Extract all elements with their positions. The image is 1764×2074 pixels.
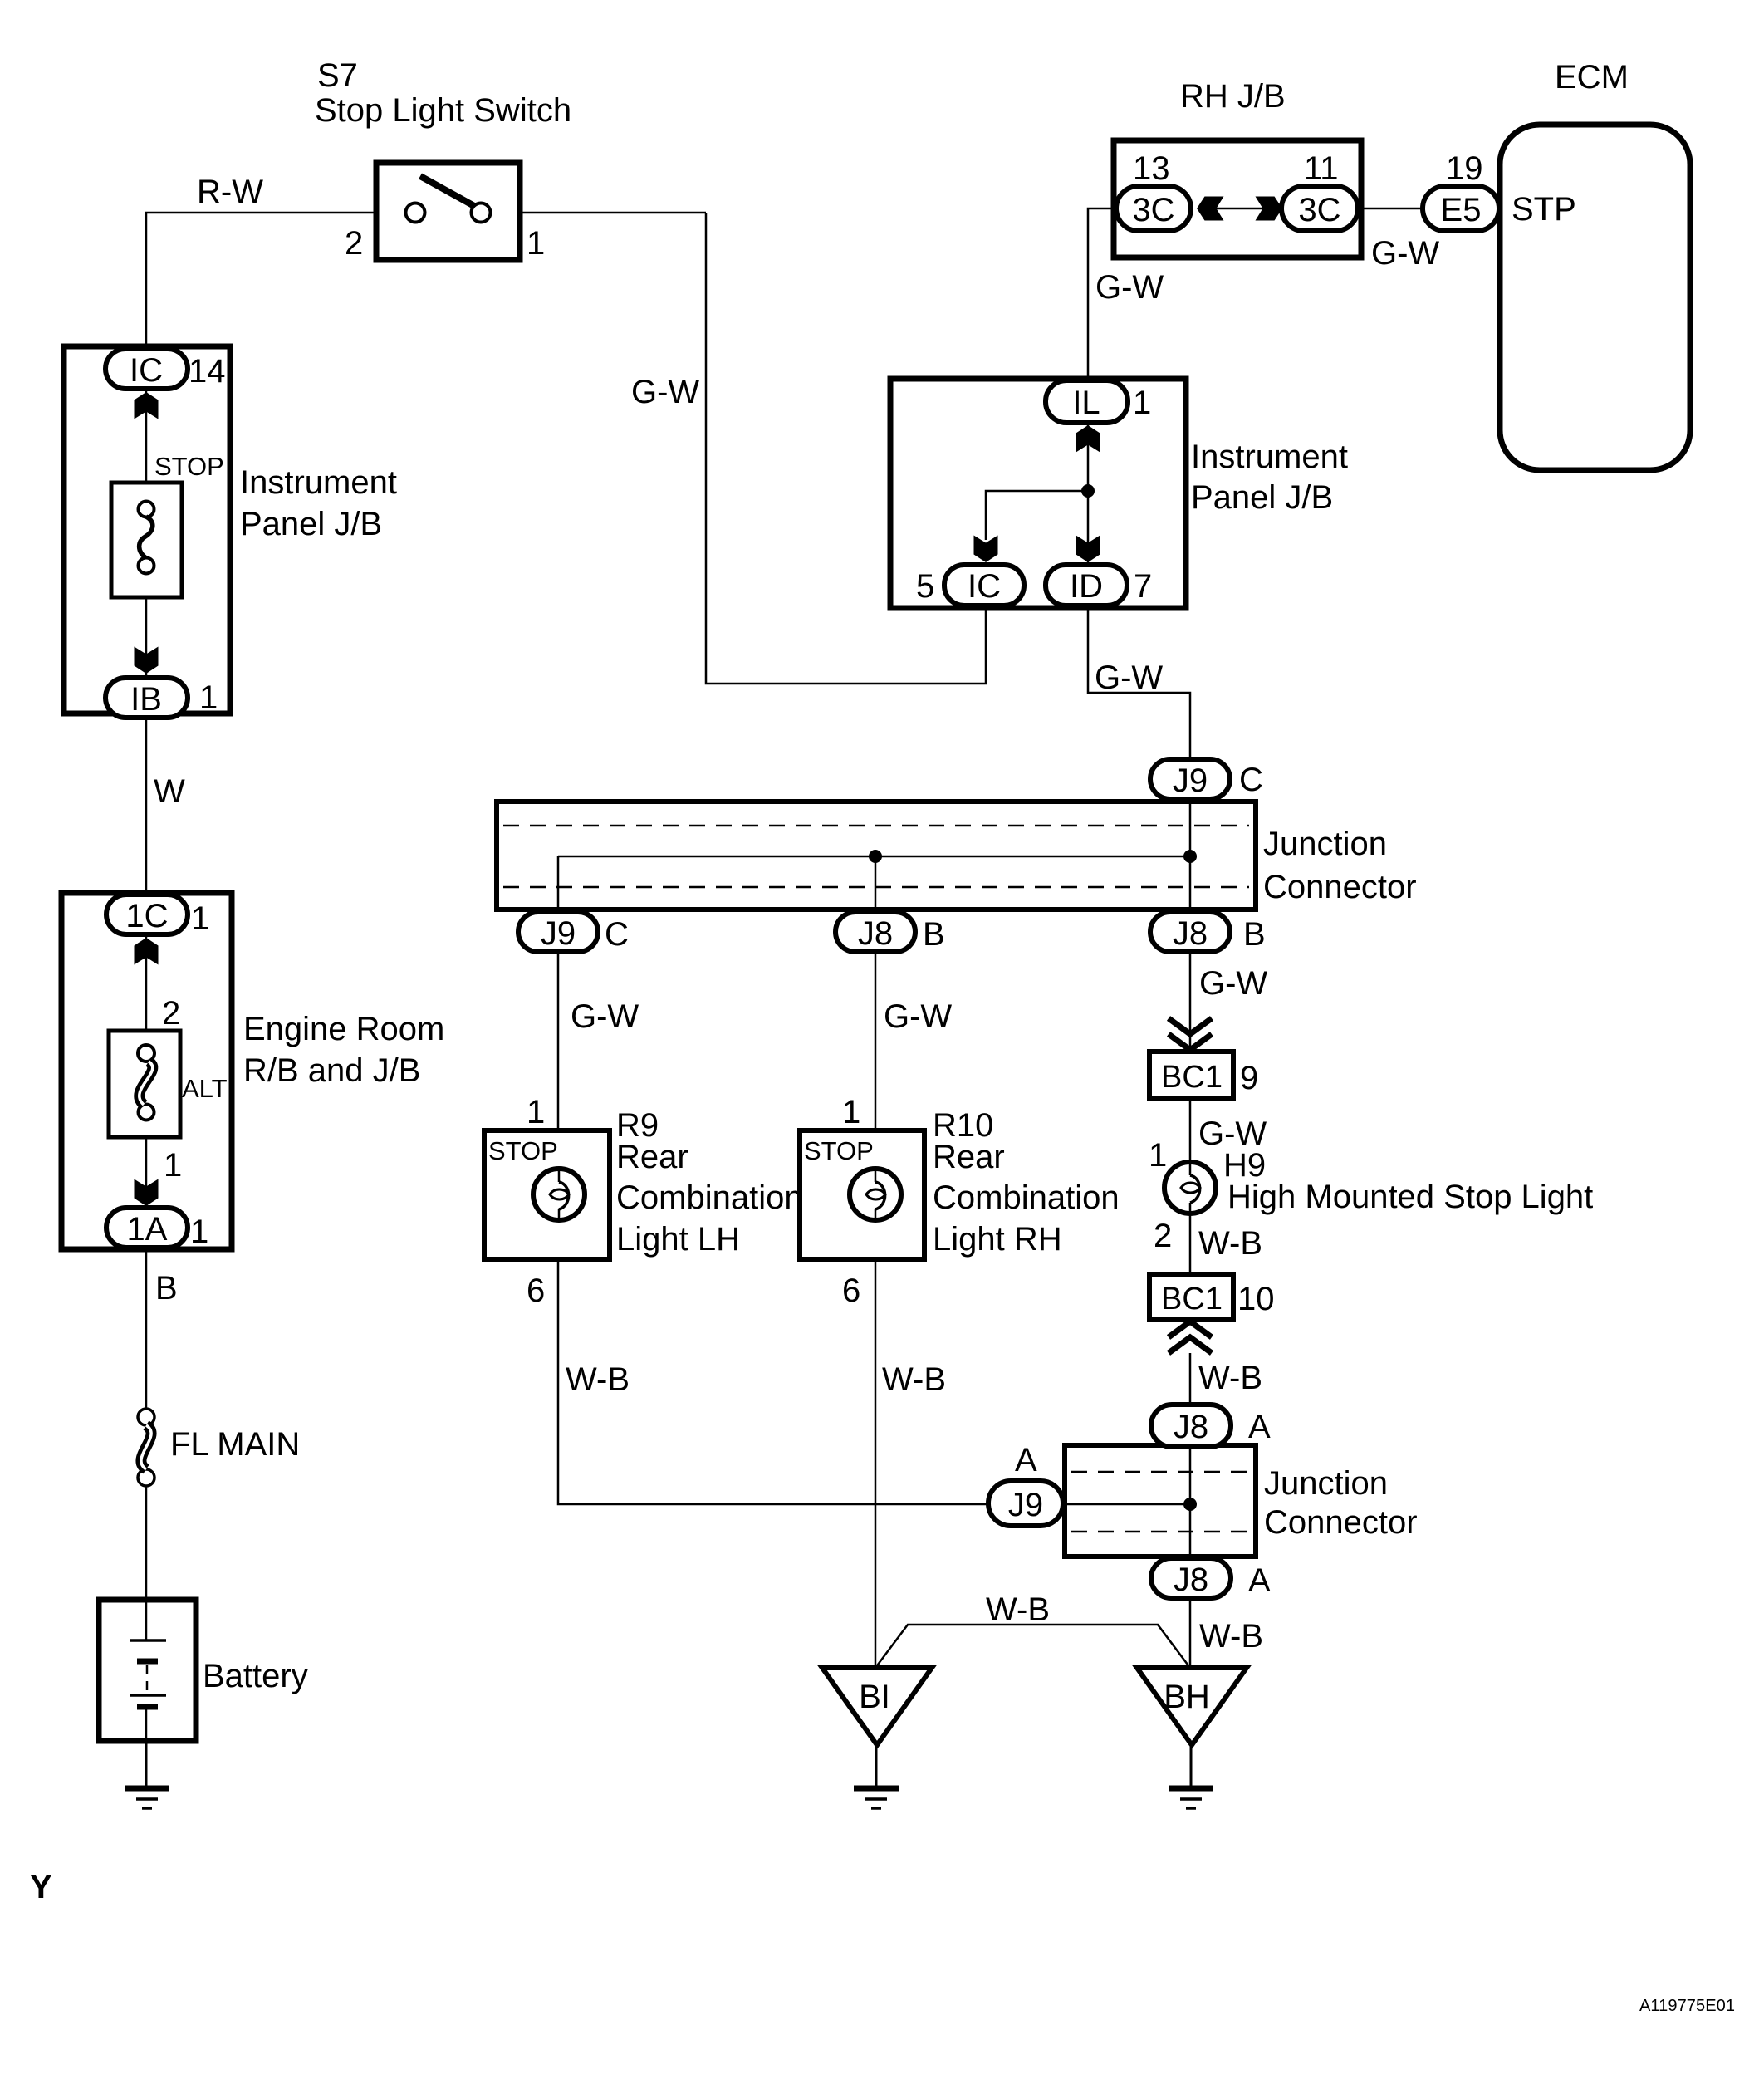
svg-text:G-W: G-W <box>1199 965 1267 1002</box>
svg-text:W-B: W-B <box>1199 1618 1263 1655</box>
bulb R10 <box>850 1169 901 1220</box>
svg-text:BI: BI <box>859 1679 890 1715</box>
wire B: 1A to FL MAIN <box>145 1249 148 1409</box>
wire W-B bridge BI to BH <box>875 1625 1190 1668</box>
svg-text:Connector: Connector <box>1264 1504 1418 1541</box>
svg-text:J9: J9 <box>1173 762 1208 799</box>
junction dot (bus middle) <box>869 850 882 863</box>
connector J9 (pin C) oval top <box>1150 759 1230 799</box>
wire W-B: J8 A bottom to BH <box>1189 1598 1192 1669</box>
ECM box <box>1500 125 1690 470</box>
fusible link FL MAIN <box>138 1409 154 1486</box>
wire J8 A top through box to J8 A bottom <box>1189 1445 1192 1560</box>
connector J8 (pin B) oval bottom-middle <box>835 912 915 952</box>
svg-text:1A: 1A <box>127 1211 168 1248</box>
wire BH to ground <box>1190 1745 1193 1787</box>
Instrument Panel J/B box (middle) <box>890 379 1186 608</box>
connector arrow right (male) <box>1256 197 1283 221</box>
connector J8 (pin B) oval bottom-right <box>1150 912 1230 952</box>
svg-text:C: C <box>605 916 629 953</box>
dashed line lower 1 <box>1071 1471 1249 1473</box>
svg-text:BH: BH <box>1164 1679 1210 1715</box>
connector IL (pin 1) oval <box>1046 380 1128 423</box>
fuse ALT box <box>109 1031 180 1137</box>
svg-text:A119775E01: A119775E01 <box>1639 1997 1735 2015</box>
svg-text:5: 5 <box>916 568 934 605</box>
fusible link ALT symbol <box>138 1045 154 1120</box>
wire G-W: J9 C to R9, and W-B: R9 to J9 A <box>558 952 990 1504</box>
connector ID (pin 7) oval <box>1046 565 1127 606</box>
svg-text:7: 7 <box>1134 568 1152 605</box>
svg-text:J8: J8 <box>1173 915 1208 952</box>
svg-text:Engine Room: Engine Room <box>243 1011 444 1047</box>
svg-text:Junction: Junction <box>1263 826 1387 862</box>
svg-text:Connector: Connector <box>1263 869 1417 905</box>
svg-text:W-B: W-B <box>1198 1360 1262 1396</box>
svg-text:W-B: W-B <box>986 1591 1050 1628</box>
connector arrow left (male) <box>1197 197 1224 221</box>
junction dot (middle J/B) <box>1081 484 1095 498</box>
wire W: IB to 1C <box>145 718 148 895</box>
svg-text:S7: S7 <box>317 57 358 94</box>
wire H9 to BC1 10 <box>1189 1211 1192 1274</box>
svg-text:C: C <box>1239 762 1263 798</box>
arrow down into ID <box>1076 536 1100 563</box>
svg-text:1: 1 <box>1133 385 1151 421</box>
bus wire inside junction connector <box>558 856 1190 858</box>
connector J8 (pin A) oval bottom <box>1151 1558 1231 1598</box>
svg-text:G-W: G-W <box>1095 659 1163 696</box>
svg-text:J8: J8 <box>1174 1562 1208 1598</box>
svg-text:IC: IC <box>968 568 1001 605</box>
svg-text:A: A <box>1015 1442 1037 1478</box>
arrow up into IC <box>135 392 159 419</box>
svg-text:STP: STP <box>1512 191 1576 228</box>
svg-text:W: W <box>154 773 185 810</box>
switch contact left <box>406 203 425 223</box>
Engine Room R/B and J/B box <box>61 893 232 1249</box>
connector J9 (pin A) oval left <box>988 1481 1063 1526</box>
svg-text:E5: E5 <box>1441 192 1482 228</box>
svg-text:Panel J/B: Panel J/B <box>1191 479 1333 516</box>
connector BC1 (pin 10) box <box>1149 1274 1233 1320</box>
svg-text:13: 13 <box>1133 150 1170 187</box>
connector 1C (pin 1) oval <box>106 895 188 934</box>
connector IC (pin 5) oval <box>944 565 1024 606</box>
Instrument Panel J/B box (left) <box>64 346 230 713</box>
svg-text:FL MAIN: FL MAIN <box>170 1426 300 1463</box>
svg-text:9: 9 <box>1240 1060 1258 1096</box>
wire switch pin 1 to G-W corner <box>491 212 706 214</box>
svg-text:IL: IL <box>1072 385 1100 421</box>
wire W-B: BC1 to J8 A <box>1189 1353 1192 1407</box>
wire bus to J8 B middle <box>875 856 877 914</box>
junction connector box (lower) <box>1065 1445 1256 1557</box>
svg-text:11: 11 <box>1304 150 1339 187</box>
svg-text:10: 10 <box>1237 1281 1275 1317</box>
svg-text:Combination: Combination <box>933 1179 1120 1216</box>
svg-text:Junction: Junction <box>1264 1465 1388 1502</box>
svg-text:1: 1 <box>527 1094 545 1130</box>
arrow up into IL <box>1076 425 1100 453</box>
svg-text:3C: 3C <box>1298 192 1340 228</box>
wire dot to ID <box>1087 491 1090 568</box>
wire G-W: 3C left to IL <box>1088 208 1116 381</box>
wire G-W: J8 B to BC1 <box>1189 952 1192 1052</box>
svg-text:Light RH: Light RH <box>933 1221 1062 1258</box>
svg-text:3C: 3C <box>1132 192 1174 228</box>
svg-text:Battery: Battery <box>203 1658 308 1694</box>
ground triangle BI <box>822 1668 932 1745</box>
svg-text:Rear: Rear <box>616 1139 688 1175</box>
svg-text:R/B and J/B: R/B and J/B <box>243 1052 420 1089</box>
wire BI to ground <box>875 1745 878 1787</box>
svg-text:R-W: R-W <box>197 174 263 210</box>
svg-text:STOP: STOP <box>804 1136 874 1165</box>
svg-text:Rear: Rear <box>933 1139 1005 1175</box>
battery symbol <box>130 1600 166 1741</box>
svg-text:A: A <box>1248 1562 1271 1599</box>
ground (BI) <box>854 1788 899 1808</box>
wire G-W: J8 B to R10 to BI <box>875 952 877 1669</box>
RH J/B box <box>1114 140 1361 257</box>
dashed line upper 2 <box>503 886 1249 889</box>
svg-text:1: 1 <box>842 1094 860 1130</box>
wire J9 A into dot <box>1065 1503 1190 1506</box>
connector IC (pin 14) oval <box>105 349 188 389</box>
svg-text:19: 19 <box>1446 150 1483 187</box>
dashed line upper 1 <box>503 825 1249 827</box>
svg-text:W-B: W-B <box>882 1361 946 1398</box>
svg-text:Stop Light Switch: Stop Light Switch <box>315 92 571 129</box>
svg-text:G-W: G-W <box>571 998 639 1035</box>
connector 3C (pin 13) oval <box>1116 186 1191 231</box>
svg-text:6: 6 <box>527 1272 545 1309</box>
bulb H9 high mounted stop light <box>1164 1162 1216 1214</box>
wire battery to ground <box>145 1741 148 1787</box>
ground triangle BH <box>1137 1668 1247 1745</box>
svg-text:G-W: G-W <box>884 998 952 1035</box>
svg-text:14: 14 <box>189 353 226 390</box>
wire G-W: ID to J9 C <box>1088 607 1190 761</box>
wire R-W: IC14 to switch pin 2 <box>146 213 406 347</box>
connector J9 (pin C) oval bottom-left <box>518 912 598 952</box>
junction connector box (upper) <box>497 802 1256 910</box>
svg-text:1: 1 <box>1149 1137 1167 1174</box>
svg-text:High Mounted Stop Light: High Mounted Stop Light <box>1227 1179 1593 1215</box>
wire G-W: BC1 to H9 <box>1189 1099 1192 1170</box>
svg-text:STOP: STOP <box>488 1136 558 1165</box>
connector 1A (pin 1) oval <box>106 1208 188 1248</box>
svg-text:6: 6 <box>842 1272 860 1309</box>
switch S7 box <box>376 163 520 260</box>
dashed line lower 2 <box>1071 1531 1249 1533</box>
ground (battery) <box>125 1788 169 1808</box>
svg-text:G-W: G-W <box>631 374 699 410</box>
arrow down into IB <box>135 647 159 674</box>
svg-text:J9: J9 <box>541 915 576 952</box>
svg-text:2: 2 <box>345 225 363 262</box>
svg-text:BC1: BC1 <box>1161 1060 1223 1095</box>
svg-text:1: 1 <box>190 1214 208 1250</box>
junction dot (bus right) <box>1183 850 1197 863</box>
connector J8 (pin A) oval top <box>1151 1405 1231 1447</box>
junction wire between 3C ovals <box>1213 208 1267 210</box>
fuse STOP box <box>111 483 182 597</box>
wire bus to J9 C bottom <box>557 856 560 914</box>
wire inside IPJB: fuse to IB <box>145 573 148 679</box>
connector BC1 (pin 9) box <box>1149 1052 1233 1099</box>
svg-text:Instrument: Instrument <box>1191 439 1348 475</box>
switch blade <box>420 176 474 206</box>
wire FL MAIN to battery <box>145 1486 148 1600</box>
svg-text:RH J/B: RH J/B <box>1180 78 1286 115</box>
wire inside: 1C to ALT fuse <box>145 935 148 1046</box>
wire G-W: switch to IC pin 5 <box>706 213 986 684</box>
connector E5 (pin 19) oval <box>1423 186 1499 231</box>
arrow down into 1A <box>135 1179 159 1207</box>
junction dot (lower box) <box>1183 1498 1197 1511</box>
svg-text:A: A <box>1248 1409 1271 1445</box>
svg-text:B: B <box>1243 916 1266 953</box>
svg-text:1C: 1C <box>125 898 168 934</box>
svg-text:BC1: BC1 <box>1161 1282 1223 1316</box>
svg-text:Light LH: Light LH <box>616 1221 740 1258</box>
fuse STOP symbol <box>139 502 154 574</box>
connector chevrons into BC1 9 <box>1169 1018 1212 1050</box>
svg-text:Instrument: Instrument <box>240 464 397 501</box>
wire IL to junction dot <box>1087 422 1090 491</box>
wire dot to IC branch <box>986 491 1088 540</box>
svg-text:G-W: G-W <box>1095 269 1164 306</box>
svg-text:2: 2 <box>1154 1218 1172 1254</box>
bulb R9 <box>533 1169 585 1220</box>
connector chevrons below BC1 10 <box>1169 1321 1212 1353</box>
arrow up into 1C <box>135 938 159 965</box>
svg-text:1: 1 <box>191 900 209 937</box>
svg-text:J8: J8 <box>858 915 893 952</box>
svg-text:W-B: W-B <box>566 1361 630 1398</box>
svg-text:IC: IC <box>130 352 163 389</box>
svg-text:J8: J8 <box>1174 1409 1208 1445</box>
wire inside IPJB: IC to STOP fuse <box>145 389 148 502</box>
svg-text:1: 1 <box>527 225 545 262</box>
svg-text:W-B: W-B <box>1198 1225 1262 1262</box>
wire inside: ALT fuse to 1A <box>145 1119 148 1226</box>
svg-text:Y: Y <box>30 1869 52 1905</box>
svg-text:ID: ID <box>1070 568 1103 605</box>
connector IB (pin 1) oval <box>105 678 188 718</box>
svg-text:J9: J9 <box>1008 1487 1043 1523</box>
svg-text:1: 1 <box>164 1147 182 1184</box>
wire bus to J8 B right <box>1189 856 1192 914</box>
svg-text:1: 1 <box>199 679 218 716</box>
svg-text:Combination: Combination <box>616 1179 803 1216</box>
svg-text:ALT: ALT <box>182 1074 228 1103</box>
R10 rear combination light box <box>800 1130 924 1259</box>
svg-text:IB: IB <box>130 681 162 718</box>
svg-text:B: B <box>923 916 945 953</box>
wire 3C right to E5 <box>1359 208 1423 210</box>
arrow down into IC <box>974 536 998 563</box>
svg-text:ECM: ECM <box>1555 59 1629 96</box>
connector 3C (pin 11) oval <box>1281 186 1358 231</box>
R9 rear combination light box <box>484 1130 610 1259</box>
battery box <box>99 1600 196 1741</box>
svg-text:Panel J/B: Panel J/B <box>240 506 382 542</box>
wire J9C top to dot <box>1189 797 1192 856</box>
svg-text:2: 2 <box>162 995 180 1032</box>
svg-text:B: B <box>155 1270 178 1307</box>
svg-text:G-W: G-W <box>1371 235 1439 272</box>
ground (BH) <box>1169 1788 1213 1808</box>
svg-text:STOP: STOP <box>154 452 224 481</box>
switch contact right <box>472 203 491 223</box>
